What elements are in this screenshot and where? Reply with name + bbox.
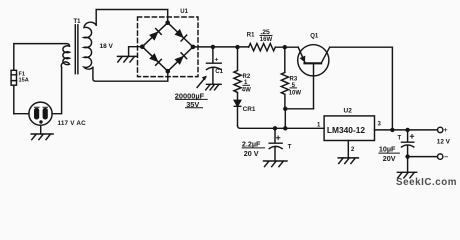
ground (bridge left vertex) bbox=[118, 56, 137, 62]
diode D1 (left to top) bbox=[149, 29, 161, 41]
ground (below U2) bbox=[338, 158, 358, 164]
ground (below C1) bbox=[206, 84, 222, 90]
node: C1 branch bbox=[211, 45, 215, 49]
diode D4 (bottom to right) bbox=[175, 53, 187, 65]
terminal +12V bbox=[438, 127, 443, 132]
fuse F1 bbox=[11, 70, 16, 85]
svg-text:4W: 4W bbox=[242, 88, 251, 94]
wire node down to input rail bbox=[284, 109, 286, 129]
svg-text:U2: U2 bbox=[344, 107, 353, 114]
resistor R1 bbox=[249, 44, 276, 51]
svg-text:R3: R3 bbox=[290, 76, 298, 82]
wire primary bottom to plug bbox=[52, 67, 62, 113]
wire U2 pin2 to ground bbox=[347, 141, 349, 158]
svg-text:Q1: Q1 bbox=[310, 33, 319, 39]
svg-text:10µF: 10µF bbox=[379, 145, 396, 154]
svg-text:12 V: 12 V bbox=[437, 139, 451, 146]
wire primary loop top bbox=[14, 44, 70, 114]
ground (below 2.2uF) bbox=[264, 161, 288, 167]
svg-text:15A: 15A bbox=[19, 77, 29, 83]
AC plug P1 bbox=[29, 102, 52, 125]
wire main positive rail bbox=[193, 47, 392, 130]
diode D3 (left to bottom) bbox=[149, 53, 161, 65]
node: 10uF bottom bbox=[405, 154, 409, 158]
wire bridge left vertex to ground bbox=[129, 47, 143, 57]
wire secondary bottom to bridge bbox=[93, 67, 168, 81]
svg-text:10W: 10W bbox=[289, 90, 302, 96]
svg-text:–: – bbox=[444, 154, 448, 161]
node: 10uF top bbox=[405, 128, 409, 132]
node: R2 branch bbox=[235, 45, 239, 49]
svg-text:18 V: 18 V bbox=[100, 43, 114, 50]
svg-text:2: 2 bbox=[351, 147, 355, 153]
wire secondary top to bridge bbox=[96, 10, 168, 26]
wire plug to ground bbox=[40, 125, 42, 134]
svg-text:SeekIC.com: SeekIC.com bbox=[396, 177, 457, 188]
svg-text:T1: T1 bbox=[74, 19, 82, 25]
node: R3 branch bbox=[283, 45, 287, 49]
node: R3 bottom / Q1 base bbox=[283, 107, 287, 111]
diode CR1 bbox=[234, 100, 240, 106]
svg-text:+: + bbox=[444, 127, 448, 134]
label arrow to C1 bbox=[197, 77, 206, 87]
svg-text:+: + bbox=[215, 56, 219, 63]
node: bridge vertices junction dots bbox=[140, 20, 195, 73]
transformer T1 secondary winding bbox=[84, 22, 96, 69]
svg-text:R2: R2 bbox=[243, 74, 251, 80]
capacitor C3 10uF bbox=[402, 130, 414, 172]
bridge rectifier U1 dashed box bbox=[138, 17, 199, 77]
svg-text:U1: U1 bbox=[180, 9, 188, 15]
svg-text:.25: .25 bbox=[260, 29, 270, 36]
svg-text:R1: R1 bbox=[247, 32, 255, 38]
svg-text:T: T bbox=[288, 145, 292, 151]
svg-text:20 V: 20 V bbox=[244, 149, 259, 158]
ground (below 10uF) bbox=[397, 172, 416, 178]
capacitor C1 bbox=[207, 47, 222, 84]
svg-text:20V: 20V bbox=[383, 154, 396, 163]
resistor R3 bbox=[281, 47, 288, 109]
node: 2.2uF branch bbox=[273, 126, 277, 130]
svg-text:2.2µF: 2.2µF bbox=[242, 139, 261, 148]
svg-text:16W: 16W bbox=[260, 37, 273, 43]
node: R3/base rail junction bbox=[283, 126, 287, 130]
transformer T1 primary winding bbox=[61, 46, 69, 68]
regulator U2 box bbox=[324, 116, 374, 141]
svg-text:T: T bbox=[398, 136, 402, 142]
wire Q1 base to R3 node bbox=[285, 108, 313, 110]
svg-text:3: 3 bbox=[378, 122, 382, 128]
wire output rail bbox=[375, 129, 438, 131]
terminal bbox=[438, 154, 443, 159]
ground (below plug) bbox=[31, 134, 53, 140]
resistor R2 bbox=[234, 47, 241, 100]
bridge diamond edges bbox=[142, 23, 193, 71]
capacitor C2 2.2uF bbox=[269, 128, 282, 161]
svg-text:C1: C1 bbox=[215, 69, 223, 75]
diode D2 (top to right) bbox=[175, 29, 187, 41]
transformer T1 core bbox=[75, 25, 78, 74]
svg-text:LM340-12: LM340-12 bbox=[327, 125, 366, 135]
wire regulator input rail bbox=[238, 126, 325, 129]
svg-text:CR1: CR1 bbox=[243, 106, 256, 113]
transistor Q1 bbox=[298, 45, 329, 76]
svg-text:117 V AC: 117 V AC bbox=[58, 120, 87, 127]
node: pass transistor join bbox=[390, 128, 394, 132]
wire negative rail bbox=[408, 156, 438, 158]
wire plug left bbox=[14, 113, 29, 115]
